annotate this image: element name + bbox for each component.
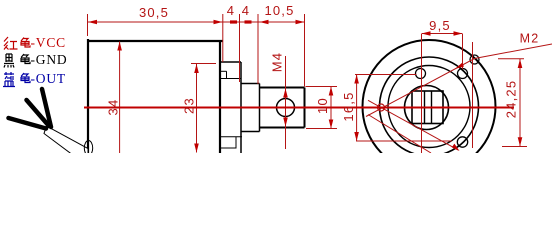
svg-text:M2: M2 — [520, 32, 540, 46]
svg-text:34: 34 — [106, 99, 121, 116]
svg-text:-GND: -GND — [31, 52, 68, 67]
svg-text:4: 4 — [242, 3, 250, 18]
svg-text:16,5: 16,5 — [341, 91, 356, 121]
svg-text:9,5: 9,5 — [429, 18, 451, 33]
svg-text:30,5: 30,5 — [139, 5, 169, 20]
svg-text:24,25: 24,25 — [504, 80, 519, 119]
svg-text:-OUT: -OUT — [31, 71, 66, 86]
svg-text:10: 10 — [315, 97, 330, 114]
svg-text:10,5: 10,5 — [264, 3, 294, 18]
svg-text:-VCC: -VCC — [31, 35, 66, 50]
svg-text:M4: M4 — [270, 52, 285, 72]
svg-text:4: 4 — [227, 3, 235, 18]
svg-text:23: 23 — [182, 97, 197, 114]
